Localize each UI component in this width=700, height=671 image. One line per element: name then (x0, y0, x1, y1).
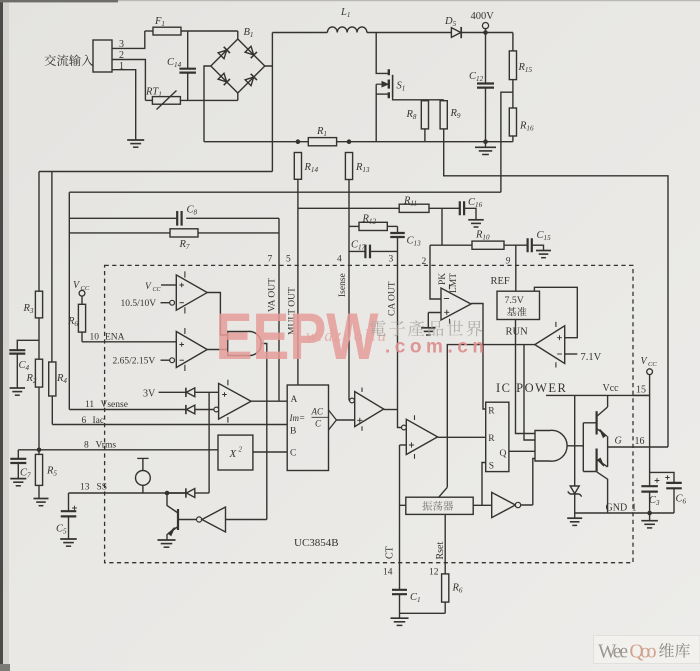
wire osc out (473, 463, 492, 506)
resistor R14 (294, 153, 318, 386)
wire J1 pin3 to F1 (112, 31, 145, 48)
op-amp (current amp CA) (349, 388, 398, 431)
resistor R8 (406, 100, 429, 142)
resistor R16 (509, 108, 534, 142)
label IC POWER (496, 381, 567, 395)
svg-text:2.65/2.15V: 2.65/2.15V (113, 357, 156, 367)
wire pin11 Vsense (69, 400, 185, 410)
ground (C4) (10, 388, 25, 395)
svg-text:7: 7 (268, 255, 273, 265)
wire boost top rail (272, 32, 513, 34)
comparator (RUN 7.1V) (506, 322, 602, 368)
capacitor C16 (460, 197, 483, 220)
svg-text:REF: REF (491, 276, 510, 287)
svg-text:w.dzaoliu: w.dzaoliu (306, 326, 386, 345)
wire comp net left column (68, 192, 70, 409)
AND gate (PWM output) (535, 430, 583, 461)
comparator (ENA 2.65/2.15V) (113, 328, 228, 371)
capacitor C1 (CT) (392, 590, 421, 614)
pin 15 Vcc (603, 383, 650, 396)
ground (R5) (34, 499, 49, 506)
svg-text:7.5V: 7.5V (505, 295, 524, 306)
ground (GND1) (641, 513, 658, 528)
diode (Vsense clamp) (186, 405, 214, 414)
REF block 7.5V (491, 276, 540, 320)
pin 9 REF (506, 257, 511, 267)
svg-text:7.1V: 7.1V (581, 352, 602, 363)
svg-text:5: 5 (286, 255, 291, 265)
ground (zener) (567, 513, 582, 525)
wire pin9 column (515, 245, 517, 291)
capacitor C17 (349, 240, 398, 259)
svg-text:A: A (291, 395, 298, 405)
wire J1 pin2 to RT1 (112, 60, 145, 101)
zener (gate clamp) (568, 395, 582, 513)
pin 16 G (615, 436, 645, 448)
wire clamp column (208, 392, 210, 493)
capacitor C13 (comp) (390, 226, 421, 409)
svg-text:9: 9 (506, 257, 511, 267)
svg-text:3: 3 (389, 255, 394, 265)
wire comparator to AND (207, 293, 228, 335)
svg-text:6: 6 (82, 416, 87, 426)
wire CT column (400, 445, 406, 590)
resistor R6 (Rset) (442, 574, 463, 613)
ground (PKLMT ref) (421, 328, 436, 335)
svg-text:Vsense: Vsense (101, 400, 128, 410)
svg-text:S: S (489, 462, 494, 472)
svg-text:400V: 400V (471, 11, 495, 22)
svg-text:2: 2 (422, 257, 427, 267)
capacitor C6 (650, 472, 687, 513)
wire J1 pin1 to ground (112, 70, 136, 140)
resistor R11 (399, 196, 460, 213)
resistor R15 (509, 33, 532, 109)
label 交流输入 (44, 54, 93, 66)
resistor R3 (23, 172, 43, 318)
svg-text:14: 14 (383, 568, 393, 578)
svg-text:Im=: Im= (289, 413, 306, 423)
label UC3854B (294, 537, 339, 549)
terminal Vcc (supply) (641, 356, 658, 486)
driver totem pole (583, 395, 607, 513)
thermistor RT1 (145, 87, 238, 110)
svg-text:B: B (290, 427, 296, 437)
svg-text:Wee: Wee (598, 642, 628, 663)
diode D5 (444, 16, 461, 38)
capacitor C3 (641, 478, 660, 515)
wire gate output G (608, 446, 668, 448)
wire bridge plus column (265, 33, 273, 172)
ground (C16) (468, 220, 484, 227)
watermark small pink url (306, 326, 386, 345)
svg-text:R: R (488, 407, 495, 417)
svg-text:X: X (229, 448, 238, 460)
svg-text:LMT: LMT (449, 273, 459, 293)
pin 12 Rset (429, 514, 446, 577)
svg-text:G: G (615, 436, 622, 447)
svg-text:AC: AC (311, 407, 324, 417)
resistor R7 (69, 229, 279, 251)
svg-text:CC: CC (648, 361, 657, 368)
capacitor C5 (soft start) (56, 493, 77, 539)
svg-text:IC POWER: IC POWER (496, 381, 567, 395)
wire CT return (400, 612, 446, 614)
watermark EEPW (216, 299, 380, 373)
capacitor C7 (10, 450, 31, 480)
svg-text:2: 2 (239, 446, 243, 454)
ground (C5) (60, 539, 77, 546)
resistor R4 (49, 172, 68, 425)
wire REF to AND (516, 320, 536, 434)
diode (SS discharge) (165, 488, 209, 497)
svg-text:R: R (488, 434, 495, 444)
wire GND1 rail (575, 503, 674, 514)
pin 7 VA OUT (268, 255, 278, 313)
inverter (osc blanking) (492, 459, 535, 518)
wire PKLMT net (430, 208, 472, 245)
ground (C7) (10, 479, 26, 486)
wire osc ramp (439, 487, 448, 497)
ground (CT) (391, 613, 409, 625)
svg-text:CC: CC (153, 287, 162, 293)
svg-text:8: 8 (84, 441, 89, 451)
capacitor C8 (69, 205, 279, 226)
svg-text:3V: 3V (143, 389, 156, 400)
pin 4 Isense (337, 255, 348, 298)
resistor R1 (308, 126, 336, 146)
wire REF output loop (534, 287, 577, 337)
svg-text:Isense: Isense (338, 273, 348, 297)
ground (Q1) (158, 540, 176, 547)
mosfet S1 (376, 33, 444, 142)
svg-text:UC3854B: UC3854B (294, 537, 339, 549)
svg-text:ENA: ENA (105, 333, 125, 343)
AND gate (ENA) (228, 331, 262, 355)
multiplier squarer X2 (218, 435, 287, 470)
op-amp (PWM comparator) (400, 415, 486, 458)
resistor R13 (345, 153, 370, 401)
wire PKLMT out to latch R (471, 304, 486, 410)
svg-text:CC: CC (81, 285, 90, 292)
svg-text:12: 12 (429, 568, 439, 578)
wire pin6 Iac (52, 416, 287, 426)
capacitor C4 (9, 318, 39, 388)
pin 2 PK LMT (422, 257, 460, 293)
ground (connector) (127, 140, 144, 147)
current source (SS charge) (136, 458, 151, 493)
wire pin8 Vrms (18, 441, 218, 453)
resistor R2 (26, 359, 43, 450)
svg-text:SS: SS (97, 483, 108, 493)
svg-text:RUN: RUN (506, 327, 529, 338)
pin 14 CT (383, 546, 396, 577)
capacitor C15 (528, 230, 551, 252)
resistor R12 (349, 214, 398, 231)
svg-text:10.5/10V: 10.5/10V (121, 299, 157, 309)
wire RUN out to oscillator (447, 345, 535, 488)
svg-text:Iac: Iac (93, 416, 105, 426)
ground (C15) (536, 251, 551, 258)
latch RS (486, 402, 509, 471)
wire pin7 column (278, 218, 280, 401)
wire CA out / pin3 column (398, 410, 402, 428)
pin 10 ENA wire (82, 333, 176, 343)
wire RUN to AND (524, 345, 535, 440)
svg-text:Rset: Rset (435, 542, 446, 560)
comparator (voltage amp) (214, 380, 287, 423)
ground (output) (475, 142, 496, 155)
wire bridge minus rail (204, 66, 211, 142)
pin 5 MULT OUT (286, 255, 298, 336)
wire latch Q to AND (509, 450, 535, 452)
wire pin2 column (430, 245, 441, 299)
svg-text:Q: Q (500, 449, 507, 459)
comparator (Vcc 10.5/10V) (121, 271, 208, 313)
svg-text:10: 10 (90, 333, 100, 343)
watermark gray 電子產品世界 (370, 320, 482, 336)
capacitor C14 (167, 31, 196, 100)
resistor R10 (472, 230, 528, 250)
wire AND out to SS inverter (261, 344, 267, 520)
fuse F1 (145, 16, 238, 35)
IC UC3854B dashed boundary (105, 265, 633, 562)
wire R11 filter (298, 207, 399, 209)
terminal Vcc (ENA pullup) (73, 280, 90, 304)
svg-text:13: 13 (80, 483, 90, 493)
multiplier block (287, 385, 355, 471)
inductor L1 (327, 7, 367, 33)
capacitor C12 (output) (469, 33, 494, 145)
wire Vsense-compensation bus (69, 191, 501, 193)
svg-text:C: C (315, 419, 322, 429)
wire shunt rail (204, 139, 513, 144)
svg-text:PK: PK (438, 273, 448, 285)
svg-text:CA OUT: CA OUT (388, 281, 398, 316)
comparator (PK LMT) (428, 284, 471, 328)
pin 3 CA OUT (388, 255, 398, 317)
svg-text:C: C (290, 449, 296, 459)
wire gate drive (444, 129, 668, 447)
svg-text:15: 15 (636, 385, 646, 396)
resistor R9 (440, 100, 461, 129)
wire Vcc rail (546, 394, 650, 396)
transistor Q1 (SS pulldown) (167, 493, 196, 540)
wire pin13 SS (69, 483, 186, 494)
svg-text:GND: GND (606, 503, 628, 514)
svg-text:Qoo: Qoo (630, 642, 657, 663)
label 3V (143, 389, 156, 400)
svg-text:CT: CT (385, 546, 396, 559)
connector J1 (AC input) (93, 39, 124, 72)
svg-text:16: 16 (635, 436, 645, 447)
diode (3V clamp) (159, 388, 219, 397)
svg-text:Vcc: Vcc (603, 383, 620, 394)
svg-text:11: 11 (85, 400, 94, 410)
watermark WeeQoo box (594, 636, 700, 664)
oscillator block 振荡器 (406, 497, 473, 514)
wire divider tap (501, 92, 513, 192)
bridge rectifier B1 (211, 27, 265, 100)
wire rectified feed (to dividers) (39, 171, 272, 173)
svg-text:1: 1 (632, 503, 637, 514)
inverter (SS) (197, 507, 267, 532)
svg-text:4: 4 (337, 255, 342, 265)
watermark .com.cn (385, 337, 484, 358)
resistor R5 (35, 450, 57, 499)
resistor R6 (67, 304, 86, 342)
node 400V (471, 11, 495, 35)
svg-text:Vrms: Vrms (96, 441, 117, 451)
